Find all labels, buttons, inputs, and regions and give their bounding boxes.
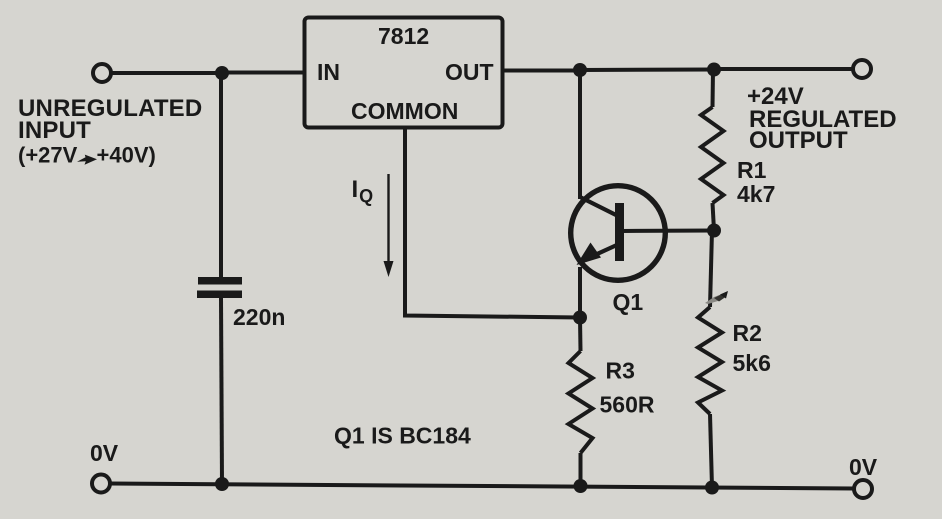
svg-text:+40V): +40V) [97, 143, 156, 168]
label Q1 IS BC184 [334, 423, 471, 449]
svg-text:5k6: 5k6 [733, 350, 771, 376]
wire Q1 emitter down to node F [578, 267, 582, 318]
svg-text:Q1: Q1 [613, 289, 644, 315]
resistor R2 5k6 [698, 307, 722, 414]
svg-text:4k7: 4k7 [737, 181, 775, 207]
input terminal (unregulated input) [93, 64, 111, 82]
label UNREGULATED INPUT (+27V-+40V) [18, 95, 202, 168]
svg-text:560R: 560R [600, 392, 655, 418]
svg-text:220n: 220n [233, 304, 285, 330]
node G (rail junction below R2) [705, 481, 719, 495]
wire capacitor C1 to ground rail [221, 298, 222, 484]
stray pen mark [705, 291, 728, 304]
node B (collector node) [573, 63, 587, 77]
svg-text:OUT: OUT [445, 59, 494, 85]
wire node E down to R2 [710, 231, 712, 308]
node C (R1 top node) [707, 63, 721, 77]
wire node F down to R3 [578, 318, 583, 352]
svg-text:R3: R3 [606, 358, 635, 384]
wire node B down to Q1 collector [578, 70, 582, 199]
ground terminal right 0V [854, 480, 872, 498]
svg-text:INPUT: INPUT [18, 117, 91, 144]
svg-text:Q1 IS BC184: Q1 IS BC184 [334, 423, 471, 449]
wire input terminal to node A [111, 71, 222, 75]
capacitor C1 220n [197, 277, 242, 298]
node F (emitter junction) [573, 311, 587, 325]
svg-text:COMMON: COMMON [351, 98, 458, 124]
node D (rail junction below capacitor) [215, 477, 229, 491]
wire R3 to ground rail [579, 453, 583, 486]
label 0V left [90, 440, 119, 466]
svg-text:0V: 0V [849, 454, 878, 480]
svg-text:OUTPUT: OUTPUT [749, 127, 848, 154]
svg-text:0V: 0V [90, 440, 119, 466]
wire R2 to ground rail [710, 414, 712, 488]
label 0V right [849, 454, 878, 480]
wire regulator OUT to node B [502, 69, 580, 73]
node E (base / R1-R2 junction) [707, 224, 721, 238]
resistor R3 560R [569, 351, 593, 453]
svg-text:IN: IN [317, 59, 340, 85]
label R1 4k7 [737, 157, 775, 207]
node H (rail junction below R3) [574, 479, 588, 493]
wire node B to node C [580, 68, 714, 73]
svg-text:(+27V: (+27V [18, 143, 78, 168]
label 220n [233, 304, 285, 330]
label Q1 [613, 289, 644, 315]
svg-text:7812: 7812 [378, 23, 429, 49]
output terminal (+24V regulated output) [853, 60, 871, 78]
wire node C down to R1 [711, 70, 716, 108]
transistor Q1 [571, 186, 666, 281]
label R3 560R [600, 358, 655, 418]
node A (input junction) [215, 66, 229, 80]
ground terminal left 0V [92, 475, 110, 493]
0V rail (bottom) [110, 484, 854, 489]
label IQ [352, 176, 374, 206]
current arrow IQ [384, 174, 394, 277]
wire Q1 base to node E [622, 229, 714, 234]
wire node A to regulator IN [222, 71, 305, 75]
label R2 5k6 [733, 320, 771, 376]
wire node A down to capacitor C1 [219, 73, 223, 277]
wire R1 to node E [713, 203, 715, 231]
wire regulator COMMON down and right to emitter node [405, 127, 580, 318]
wire node C to output terminal [714, 67, 853, 71]
regulator U1 7812 box [305, 18, 503, 128]
label +24V REGULATED OUTPUT [747, 83, 897, 154]
svg-text:R2: R2 [733, 320, 762, 346]
resistor R1 4k7 [701, 107, 724, 203]
svg-text:R1: R1 [737, 157, 767, 183]
